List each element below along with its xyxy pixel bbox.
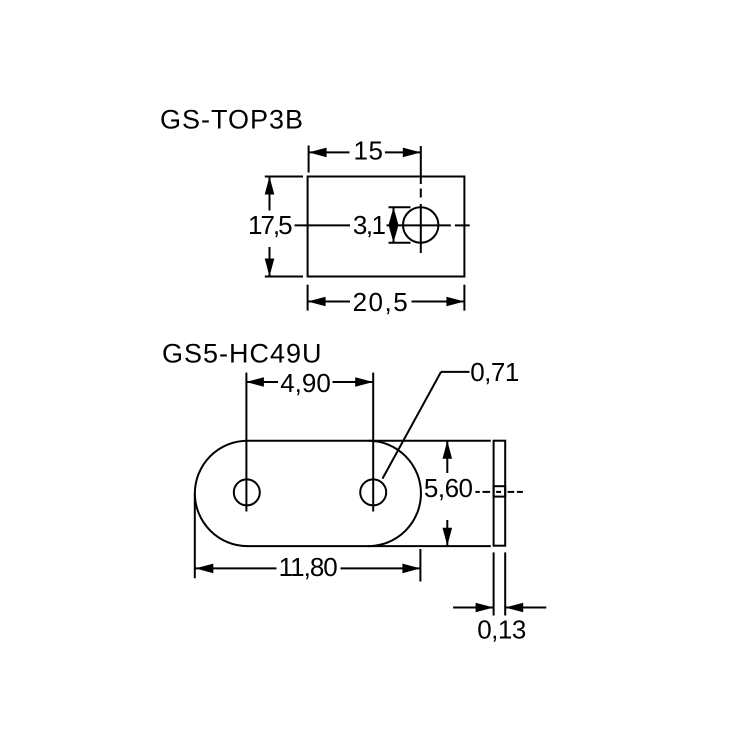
svg-text:GS-TOP3B: GS-TOP3B bbox=[160, 105, 304, 135]
dimension 20,5 bbox=[308, 285, 465, 311]
svg-text:0,13: 0,13 bbox=[477, 615, 526, 645]
dimension 11,80 bbox=[195, 494, 421, 582]
crystal blank in side view bbox=[494, 486, 506, 496]
svg-text:4,90: 4,90 bbox=[280, 368, 331, 398]
dimension 3,1 (hole diameter) bbox=[389, 207, 411, 242]
side view outline bbox=[494, 441, 506, 546]
hole centerlines (vertical) bbox=[246, 373, 373, 512]
horizontal centerline of hole bbox=[295, 224, 470, 226]
left lead hole bbox=[234, 479, 260, 505]
svg-text:0,71: 0,71 bbox=[470, 357, 519, 387]
dimension 5,60 bbox=[446, 441, 448, 546]
side view dashed centerline bbox=[475, 491, 523, 493]
svg-text:GS5-HC49U: GS5-HC49U bbox=[162, 339, 323, 369]
svg-text:20,5: 20,5 bbox=[353, 287, 410, 317]
body outline GS5-HC49U (stadium) bbox=[195, 441, 491, 546]
svg-text:11,80: 11,80 bbox=[279, 552, 338, 582]
body outline GS-TOP3B bbox=[308, 177, 465, 277]
svg-text:5,60: 5,60 bbox=[424, 473, 473, 503]
svg-text:3,1: 3,1 bbox=[353, 210, 386, 240]
svg-text:17,5: 17,5 bbox=[248, 210, 292, 240]
hole circle 3.1mm bbox=[403, 207, 438, 242]
vertical centerline of hole (dashed) bbox=[420, 146, 422, 253]
leader 0,71 (lead diameter) bbox=[383, 372, 470, 479]
svg-text:15: 15 bbox=[353, 136, 383, 166]
dimension 4,90 bbox=[246, 381, 373, 383]
right lead hole bbox=[360, 479, 386, 505]
dimension 0,13 bbox=[453, 552, 546, 615]
dimension 17,5 bbox=[265, 177, 303, 277]
dimension 15 bbox=[309, 146, 421, 173]
